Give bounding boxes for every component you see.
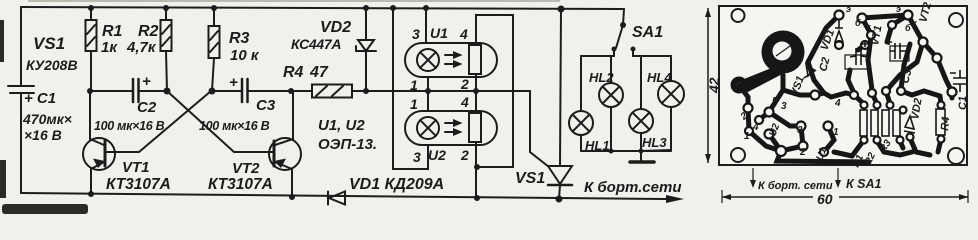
- svg-text:HL3: HL3: [642, 135, 667, 150]
- svg-text:2: 2: [460, 76, 469, 92]
- svg-text:КТ3107А: КТ3107А: [208, 176, 273, 193]
- svg-text:1: 1: [410, 96, 418, 112]
- svg-text:HL1: HL1: [585, 138, 610, 153]
- svg-text:VS1: VS1: [515, 170, 545, 187]
- svg-text:VD2: VD2: [320, 19, 351, 36]
- svg-text:4: 4: [752, 122, 759, 133]
- svg-text:U1, U2: U1, U2: [318, 117, 365, 134]
- svg-text:42: 42: [706, 77, 722, 94]
- svg-text:1: 1: [744, 131, 750, 142]
- svg-text:10 к: 10 к: [230, 47, 260, 64]
- svg-text:б: б: [855, 18, 861, 28]
- svg-text:47: 47: [309, 64, 329, 81]
- svg-text:3: 3: [781, 101, 787, 112]
- svg-text:К SA1: К SA1: [846, 177, 882, 191]
- svg-text:к: к: [912, 18, 917, 28]
- svg-text:R1: R1: [102, 23, 123, 40]
- svg-text:100 мк×16 В: 100 мк×16 В: [94, 119, 165, 133]
- svg-text:U1: U1: [430, 25, 448, 41]
- svg-text:2: 2: [799, 147, 806, 158]
- svg-text:КТ3107А: КТ3107А: [106, 176, 171, 193]
- svg-text:R3: R3: [229, 30, 250, 47]
- svg-text:R4: R4: [939, 116, 952, 131]
- svg-text:к: к: [866, 22, 871, 32]
- svg-text:4: 4: [460, 94, 469, 110]
- svg-text:э: э: [896, 4, 901, 14]
- svg-text:4: 4: [834, 98, 841, 109]
- svg-text:4: 4: [459, 26, 468, 42]
- svg-text:3: 3: [412, 26, 420, 42]
- svg-text:470мк×: 470мк×: [22, 111, 72, 127]
- svg-text:HL2: HL2: [589, 70, 614, 85]
- svg-text:К борт. сети: К борт. сети: [758, 180, 833, 192]
- svg-text:2: 2: [460, 147, 469, 163]
- svg-text:1: 1: [410, 77, 418, 93]
- svg-text:VT1: VT1: [122, 159, 150, 176]
- svg-text:3: 3: [413, 149, 421, 165]
- svg-text:э: э: [846, 4, 851, 14]
- svg-text:60: 60: [817, 191, 833, 207]
- svg-text:+: +: [229, 74, 238, 91]
- svg-text:КУ208В: КУ208В: [26, 57, 78, 73]
- svg-text:+: +: [142, 73, 151, 90]
- svg-text:+ С1: + С1: [24, 90, 56, 107]
- svg-text:C1: C1: [957, 96, 969, 110]
- svg-text:С3: С3: [256, 97, 276, 114]
- svg-text:HL4: HL4: [647, 70, 672, 85]
- svg-text:VT2: VT2: [232, 160, 260, 177]
- svg-text:4,7к: 4,7к: [126, 39, 157, 56]
- svg-text:5: 5: [772, 96, 778, 107]
- svg-text:VD1 КД209А: VD1 КД209А: [349, 176, 444, 193]
- svg-text:VS1: VS1: [33, 34, 65, 53]
- svg-text:б: б: [905, 23, 911, 33]
- svg-text:КС447А: КС447А: [291, 36, 341, 52]
- svg-text:×16 В: ×16 В: [24, 127, 62, 143]
- svg-text:R2: R2: [138, 23, 159, 40]
- svg-text:3: 3: [797, 125, 803, 136]
- svg-text:100 мк×16 В: 100 мк×16 В: [199, 119, 270, 133]
- svg-text:R4: R4: [283, 64, 304, 81]
- svg-text:U2: U2: [428, 147, 446, 163]
- svg-text:С2: С2: [137, 99, 157, 116]
- svg-text:1к: 1к: [101, 39, 118, 56]
- svg-text:1: 1: [833, 127, 839, 138]
- svg-text:SA1: SA1: [632, 24, 663, 41]
- svg-text:ОЭП-13.: ОЭП-13.: [318, 136, 377, 153]
- svg-text:К борт.сети: К борт.сети: [584, 179, 682, 196]
